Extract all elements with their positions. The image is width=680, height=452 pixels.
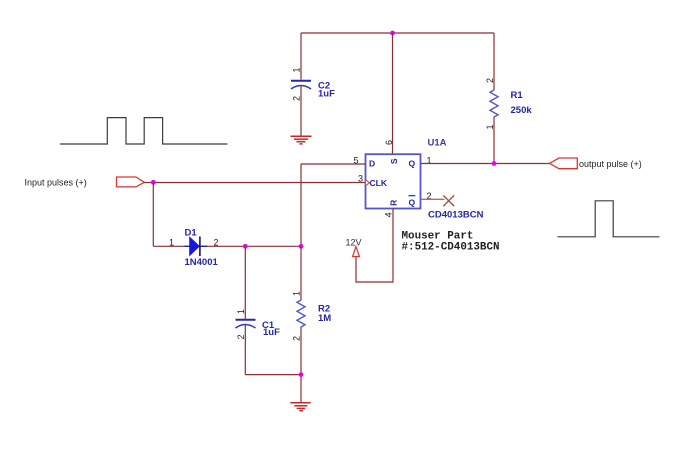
svg-text:Q: Q	[409, 159, 416, 169]
svg-text:12V: 12V	[346, 238, 362, 248]
wire: input drop to diode row	[152, 182, 154, 246]
wire: D input vertical drop	[300, 164, 302, 246]
input pulse waveform (upper left)	[60, 118, 227, 144]
ground (under C2)	[291, 136, 312, 144]
svg-text:2: 2	[485, 78, 495, 83]
node: junction diode-C1	[243, 244, 248, 249]
svg-text:CLK: CLK	[370, 178, 388, 188]
svg-text:1: 1	[485, 124, 495, 129]
capacitor C1	[236, 320, 256, 328]
svg-text:1uF: 1uF	[318, 89, 335, 100]
op-amp/flip-flop U1A box	[366, 154, 421, 208]
input connector	[117, 177, 145, 187]
svg-text:2: 2	[236, 334, 246, 339]
svg-text:CD4013BCN: CD4013BCN	[428, 210, 484, 221]
wire: top bus from C2 to R1	[301, 32, 494, 34]
svg-text:6: 6	[384, 140, 394, 145]
wire: D input horizontal	[301, 163, 366, 165]
svg-text:1: 1	[236, 309, 246, 314]
svg-text:2: 2	[214, 238, 219, 248]
svg-text:R: R	[389, 200, 399, 206]
pin label Q-bar	[409, 196, 416, 208]
svg-text:D: D	[369, 159, 375, 169]
svg-text:output pulse (+): output pulse (+)	[579, 159, 642, 169]
svg-text:1: 1	[292, 291, 302, 296]
node: input junction	[151, 180, 156, 185]
wire: C2 top lead	[300, 33, 302, 80]
output pulse waveform (lower right)	[558, 201, 660, 237]
svg-text:250k: 250k	[511, 105, 533, 116]
wire: C1 top lead	[244, 246, 246, 318]
svg-text:R1: R1	[511, 90, 524, 101]
ground (under R2)	[290, 403, 310, 411]
node: junction on top bus at S branch	[390, 31, 395, 36]
svg-text:#:512-CD4013BCN: #:512-CD4013BCN	[402, 242, 500, 254]
svg-text:2: 2	[292, 336, 302, 341]
wire: C1 to R2 bottom horizontal	[245, 374, 301, 376]
svg-text:2: 2	[292, 96, 302, 101]
svg-text:1N4001: 1N4001	[185, 257, 219, 268]
wire: R2 bottom lead to ground	[300, 330, 302, 403]
wire: R2 top lead	[300, 246, 302, 300]
wire: Q output run	[421, 163, 550, 165]
resistor R2	[297, 300, 305, 330]
node: junction diode-R2	[299, 244, 304, 249]
svg-text:1M: 1M	[318, 313, 331, 324]
output connector	[550, 158, 578, 169]
svg-text:S: S	[389, 158, 399, 164]
svg-text:U1A: U1A	[428, 138, 447, 149]
clock pin triangle	[366, 180, 370, 185]
wire: C2 bottom lead	[300, 86, 302, 136]
wire: CLK input run	[144, 182, 365, 184]
wire: Q-bar stub	[421, 198, 445, 200]
svg-text:Input pulses (+): Input pulses (+)	[25, 178, 87, 188]
wire: R pin (pin 4) down from box	[356, 209, 393, 283]
capacitor C2	[291, 81, 311, 89]
svg-text:Q: Q	[409, 198, 416, 208]
svg-text:4: 4	[383, 212, 393, 217]
svg-text:1uF: 1uF	[263, 327, 280, 338]
wire: R1 bottom lead	[493, 117, 495, 164]
resistor R1	[490, 90, 498, 117]
power symbol 12V arrow	[353, 247, 360, 257]
diode D1	[185, 237, 208, 257]
svg-text:1: 1	[292, 67, 302, 72]
wire: diode row horizontal	[153, 245, 301, 247]
wire: S pin branch (pin 6)	[392, 33, 394, 154]
node: junction Q-R1	[492, 161, 497, 166]
node: junction R2-C1 bottom	[299, 372, 304, 377]
wire: C1 bottom lead	[244, 325, 246, 375]
svg-text:1: 1	[169, 238, 174, 248]
wire: R1 top lead	[493, 33, 495, 90]
svg-text:D1: D1	[185, 228, 198, 239]
no-connect X on Q-bar	[443, 195, 454, 206]
